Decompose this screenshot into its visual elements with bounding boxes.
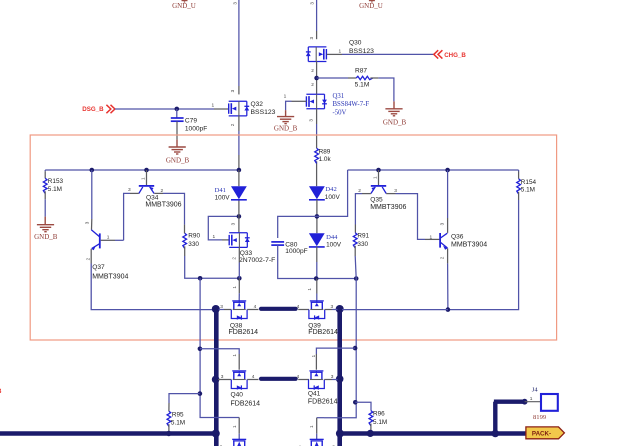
wire: Q36 emitter down to row rail — [447, 248, 449, 309]
wire: thick source link Q40-Q41 — [261, 377, 296, 381]
wire: R91 down to node — [355, 246, 356, 279]
svg-text:D41: D41 — [215, 187, 226, 194]
label D41 — [215, 187, 226, 194]
pin number 3 (Q37 base) — [85, 221, 90, 224]
wire: row3 left drain — [238, 418, 240, 440]
svg-text:4: 4 — [254, 304, 257, 310]
junction: row rail / left bus (top) — [212, 305, 220, 313]
pin number 4 (Q43) — [298, 444, 301, 446]
resistor R89 — [315, 148, 319, 163]
pin number 3 (Q30 drain) — [309, 37, 314, 40]
transistor Q33 (2N7002-7-F MOSFET, gate left) — [229, 233, 250, 248]
wire: Q41 to right bus — [324, 379, 337, 381]
wire: Q41 drain feed — [316, 348, 355, 370]
pin number 4 (Q39) — [297, 304, 300, 310]
transistor Q38 (FDB2614 power MOSFET) — [231, 301, 247, 320]
svg-text:2N7002-7-F: 2N7002-7-F — [239, 257, 275, 264]
pin number 3 (top of left drain wire) — [233, 2, 238, 5]
svg-text:Q31: Q31 — [333, 93, 345, 100]
label fragment (clipped at left edge) — [0, 388, 2, 395]
wire: Q30 gate to CHG_B port — [327, 53, 435, 55]
junction: rail / Q34 base — [144, 168, 149, 173]
pin number 1 (Q38 drain) — [232, 286, 237, 289]
pin number 1 (row3 left drain) — [232, 425, 237, 428]
wire: thick elbow to J4 — [494, 402, 525, 434]
svg-text:330: 330 — [188, 241, 199, 248]
svg-text:PACK-: PACK- — [532, 431, 551, 438]
label J4 — [532, 386, 539, 393]
svg-text:4: 4 — [297, 374, 300, 380]
svg-text:3: 3 — [309, 37, 314, 40]
svg-text:2: 2 — [230, 123, 235, 126]
svg-text:1: 1 — [232, 354, 237, 357]
wire: Q37 base from rail — [91, 170, 93, 230]
pin number 1 (Q30 gate) — [339, 49, 342, 55]
label 5.1M (R96) — [373, 419, 387, 426]
label 8199 (J4) — [533, 414, 547, 421]
pin number 1 (Q36 base) — [430, 234, 433, 240]
transistor Q40 (FDB2614 power MOSFET) — [231, 371, 247, 390]
transistor Q32 (BSS123 MOSFET, gate left) — [229, 101, 250, 116]
pin number 3 (Q39) — [331, 304, 334, 310]
pin number 1 (Q31 gate) — [284, 94, 287, 100]
wire: R95 to bottom bus — [168, 424, 170, 433]
svg-text:J4: J4 — [532, 386, 539, 393]
svg-text:1: 1 — [284, 94, 287, 100]
label 5.1M (R95) — [171, 420, 185, 427]
pin number 1 (row3 right drain) — [309, 425, 314, 428]
pin number 3 (Q32 drain) — [230, 89, 235, 92]
pin number 1 (Q32 gate) — [212, 103, 215, 109]
pin number 2 (Q35 emitter) — [358, 188, 361, 194]
pin number 4 (Q41) — [297, 374, 300, 380]
svg-text:R96: R96 — [373, 411, 385, 418]
boundary box (pink rectangle) — [30, 135, 556, 340]
junction: right column / R96 tap — [353, 400, 358, 405]
svg-text:2: 2 — [86, 257, 91, 260]
bus wire: left vertical bus (battery negative) — [214, 308, 219, 446]
capacitor C80 — [271, 242, 284, 245]
svg-text:3: 3 — [233, 2, 238, 5]
wire: R90 down and node wire to Q33/Q38 — [185, 246, 240, 278]
wire: R95 feed — [169, 394, 200, 412]
svg-text:Q35: Q35 — [370, 196, 383, 203]
wire: Q35 base pin — [378, 170, 380, 186]
pin number 3 (Q41) — [331, 374, 334, 380]
pin number 2 (Q30 source) — [311, 68, 314, 73]
wire: R87 to GND_B — [370, 78, 394, 101]
svg-text:R154: R154 — [521, 179, 537, 186]
label 100V (D42) — [325, 194, 341, 201]
label 1000pF (C80) — [285, 248, 307, 255]
pin number 4 (Q38) — [254, 304, 257, 310]
resistor R153 — [43, 178, 47, 193]
junction: DSG_B / C79 tap — [175, 107, 180, 112]
power symbol GND_U (right, clipped at top edge) — [359, 1, 383, 11]
label 5.1M (R87) — [355, 82, 370, 89]
svg-text:3: 3 — [310, 2, 315, 5]
label R95 — [172, 411, 184, 418]
label Q35 — [370, 196, 383, 203]
label BSS123 (Q30) — [349, 48, 374, 55]
junction: left bus / bottom bus — [212, 430, 220, 438]
label R153 — [48, 178, 64, 185]
label Q30 — [349, 40, 362, 47]
label MMBT3906 (Q34) — [145, 202, 181, 209]
wire: Q40 pin4 stub — [247, 379, 258, 381]
svg-text:FDB2614: FDB2614 — [308, 399, 338, 406]
wire: Q38 drain from node — [238, 278, 240, 300]
pin number 3 (Q40) — [221, 374, 224, 380]
svg-text:4: 4 — [297, 304, 300, 310]
pin number 3 (Q34 collector) — [128, 187, 131, 193]
label Q33 — [240, 250, 253, 257]
ground GND_B (below C79) — [166, 140, 190, 165]
junction: D42/D44/C80 node — [315, 214, 320, 219]
wire: rail corner down to R153 — [44, 170, 46, 178]
wire: Q34 base pin — [146, 170, 148, 186]
label MMBT3904 (Q36) — [451, 241, 487, 248]
svg-text:8199: 8199 — [533, 414, 547, 421]
transistor Q43 (FDB2614, clipped at bottom edge) — [310, 439, 324, 446]
svg-text:R87: R87 — [355, 68, 367, 75]
transistor Q37 (MMBT3904 NPN) — [91, 230, 100, 250]
svg-text:100V: 100V — [325, 194, 341, 201]
svg-text:3: 3 — [309, 119, 314, 122]
svg-text:1: 1 — [430, 234, 433, 240]
label R154 — [521, 179, 537, 186]
transistor Q42 (FDB2614, clipped at bottom edge) — [232, 439, 246, 446]
svg-text:FDB2614: FDB2614 — [229, 329, 259, 336]
wire: Q37 emitter down to row rail — [91, 249, 215, 310]
svg-text:DSG_B: DSG_B — [82, 106, 104, 113]
wire: R153 to GND_B — [44, 191, 46, 216]
svg-text:MMBT3906: MMBT3906 — [370, 204, 406, 211]
svg-text:5.1M: 5.1M — [355, 82, 370, 89]
wire: Q38 pin4 stub — [247, 309, 258, 311]
wire: D44 to Q39 node — [316, 247, 318, 279]
svg-text:1: 1 — [232, 286, 237, 289]
svg-text:1: 1 — [339, 49, 342, 55]
label BSS123 (Q32) — [251, 109, 276, 116]
wire: C80 bottom to node — [278, 245, 357, 278]
transistor Q35 (MMBT3906 PNP) — [371, 186, 386, 194]
label Q40 — [231, 391, 244, 398]
pin number 4 (Q40) — [252, 374, 255, 380]
wire: Q35 emitter to R91 — [355, 194, 371, 233]
svg-text:D44: D44 — [326, 234, 338, 241]
svg-text:GND_U: GND_U — [172, 2, 196, 10]
junction: left column / R95 tap — [198, 391, 203, 396]
label R96 — [373, 411, 385, 418]
wire: node to Q35 branch corner — [317, 170, 348, 216]
junction: right bus / Q41 gate — [336, 375, 344, 383]
svg-text:1: 1 — [309, 425, 314, 428]
svg-text:3: 3 — [128, 187, 131, 193]
wire: gate drive column (right) — [317, 279, 357, 418]
wire: Q31 source down to R89 — [316, 109, 318, 148]
wire: R96 feed — [355, 402, 371, 410]
svg-text:4: 4 — [252, 374, 255, 380]
pin number 1 (Q33 gate) — [213, 234, 216, 240]
pin number 3 (Q43) — [332, 444, 335, 446]
svg-text:100V: 100V — [326, 242, 342, 249]
pin number 1 (J4) — [530, 396, 533, 402]
svg-text:MMBT3906: MMBT3906 — [145, 202, 181, 209]
junction: elbow / bottom bus — [492, 430, 500, 438]
svg-text:3: 3 — [230, 89, 235, 92]
label MMBT3904 (Q37) — [92, 273, 128, 280]
label D42 — [325, 186, 336, 193]
svg-text:Q37: Q37 — [92, 264, 105, 271]
wire: bus to Q38 gate — [218, 309, 231, 311]
pin number 1 (Q40 drain) — [232, 354, 237, 357]
junction: rail / Q37 base — [90, 168, 95, 173]
wire: left drain vertical from top edge to Q32 — [238, 0, 240, 94]
pin number 3 (Q36 collector) — [439, 222, 444, 225]
label 100V (D41) — [215, 194, 231, 201]
svg-text:100V: 100V — [215, 194, 231, 201]
svg-text:1.0k: 1.0k — [319, 156, 332, 163]
svg-text:BSS123: BSS123 — [251, 109, 276, 116]
svg-text:5.1M: 5.1M — [373, 419, 387, 426]
wire: Q39 to right bus — [325, 309, 338, 311]
svg-text:3: 3 — [331, 304, 334, 310]
svg-text:GND_B: GND_B — [274, 125, 298, 133]
wire: row3 right drain — [316, 418, 318, 440]
ground GND_B (Q31 gate) — [274, 110, 298, 132]
label 2N7002-7-F (Q33) — [239, 257, 275, 264]
wire: Q39 pin4 stub — [298, 309, 309, 311]
ground GND_B (below R153) — [34, 217, 58, 242]
pin number 1 (Q37 collector) — [107, 235, 110, 241]
resistor R91 — [353, 233, 357, 248]
wire: D41 cathode to Q33 drain — [238, 200, 240, 233]
wire: Q36 collector to rail — [447, 170, 449, 233]
wire: right vertical from top edge to Q30 drain — [316, 0, 318, 39]
port PACK- (off-page connector) — [526, 427, 565, 439]
label FDB2614 (Q41) — [308, 399, 338, 406]
svg-text:1: 1 — [141, 177, 146, 180]
svg-text:Q40: Q40 — [231, 391, 244, 398]
svg-text:BSS123: BSS123 — [349, 48, 374, 55]
wire: Q41 pin4 stub — [298, 379, 309, 381]
label FDB2614 (Q40) — [231, 400, 261, 407]
wire: gate drive column (left) — [200, 278, 239, 417]
svg-text:1: 1 — [232, 425, 237, 428]
svg-text:330: 330 — [357, 241, 368, 248]
port DSG_B (off-page connector) — [82, 105, 115, 113]
svg-text:1: 1 — [373, 176, 378, 179]
label FDB2614 (Q38) — [229, 329, 259, 336]
junction: C80-row / Q39 drain — [314, 276, 319, 281]
label 1000pF (C79) — [185, 125, 207, 132]
svg-text:3: 3 — [231, 222, 236, 225]
wire: Q34 collector to Q37 collector — [124, 193, 139, 240]
resistor R87 — [356, 76, 373, 79]
label 5.1M (R154) — [521, 187, 535, 194]
wire: Q33 gate loop — [208, 216, 239, 240]
port CHG_B (off-page connector) — [434, 50, 467, 59]
svg-text:FDB2614: FDB2614 — [231, 400, 261, 407]
label R90 — [188, 233, 200, 240]
pin number 1 (Q35 base) — [373, 176, 378, 179]
label Q38 — [230, 323, 243, 330]
wire: C79 to GND_B — [176, 121, 178, 139]
junction: elbow / J4 pin — [522, 399, 528, 405]
resistor R95 — [167, 411, 171, 426]
wire: R89 to D42 — [316, 161, 318, 186]
svg-text:C79: C79 — [185, 118, 197, 125]
label 330 (R91) — [357, 241, 368, 248]
pin number 4 (Q42) — [255, 445, 258, 446]
wire: bus to Q40 gate — [218, 379, 231, 381]
svg-text:R95: R95 — [172, 411, 184, 418]
svg-text:Q41: Q41 — [308, 390, 321, 397]
label 5.1M (R153) — [48, 186, 62, 193]
svg-text:1000pF: 1000pF — [285, 248, 307, 255]
junction: rail / Q35 base — [376, 168, 381, 173]
capacitor C79 — [171, 118, 184, 121]
svg-text:1000pF: 1000pF — [185, 125, 207, 132]
label Q34 — [146, 194, 159, 201]
svg-text:R153: R153 — [48, 178, 64, 185]
svg-text:MMBT3904: MMBT3904 — [92, 273, 128, 280]
wire: Q39 drain from node — [316, 279, 318, 301]
pin number 2 (Q37 emitter) — [86, 257, 91, 260]
label Q37 — [92, 264, 105, 271]
transistor Q36 (MMBT3904 NPN) — [440, 233, 448, 250]
svg-text:GND_U: GND_U — [359, 2, 383, 10]
junction: node / gate-drive column — [198, 276, 203, 281]
svg-text:2: 2 — [231, 257, 236, 260]
junction: rail / D41 column — [237, 168, 242, 173]
wire: C80 top tap — [278, 216, 317, 238]
resistor R154 — [517, 179, 521, 194]
svg-text:3: 3 — [221, 374, 224, 380]
label C80 — [285, 242, 297, 249]
wire: rail dot to D41 — [238, 170, 240, 186]
svg-text:1: 1 — [213, 234, 216, 240]
resistor R90 — [183, 233, 187, 248]
pin number 3 (Q42) — [220, 444, 223, 446]
label R91 — [357, 232, 369, 239]
svg-text:Q34: Q34 — [146, 194, 159, 201]
svg-text:5.1M: 5.1M — [48, 186, 62, 193]
svg-text:1: 1 — [212, 103, 215, 109]
junction: left column / Q40 drain tap — [198, 347, 203, 352]
pin number 2 (Q36 emitter) — [439, 256, 444, 259]
svg-text:-50V: -50V — [333, 110, 347, 117]
svg-text:2: 2 — [311, 68, 314, 73]
svg-text:R91: R91 — [357, 232, 369, 239]
junction: row rail / Q36 emitter — [446, 307, 451, 312]
svg-text:5.1M: 5.1M — [171, 420, 185, 427]
label MMBT3906 (Q35) — [370, 204, 406, 211]
wire: C79 tap down — [176, 109, 178, 118]
wire: Q34 emitter to R90 — [154, 193, 184, 233]
wire: R96 to bottom bus — [370, 424, 372, 434]
wire: R154 down to row rail — [448, 192, 519, 310]
pin number 3 (Q31 source) — [309, 119, 314, 122]
transistor Q41 (FDB2614 power MOSFET) — [309, 371, 325, 390]
junction: node / Q33 source / Q38 drain — [237, 276, 242, 281]
label 1.0k (R89) — [319, 156, 332, 163]
wire: thick source link Q38-Q39 — [261, 307, 296, 311]
label 100V (D44) — [326, 242, 342, 249]
svg-text:Q32: Q32 — [251, 101, 264, 108]
wire: Q37 collector — [101, 239, 124, 241]
svg-text:1: 1 — [311, 354, 316, 357]
bus wire: bottom horizontal left segment — [0, 431, 216, 436]
wire: Q40 drain feed — [200, 349, 239, 370]
diode D41 — [231, 186, 247, 200]
pin number 3 (Q33 drain) — [231, 222, 236, 225]
pin number 1 (Q41 drain) — [311, 354, 316, 357]
label C79 — [185, 118, 197, 125]
transistor Q30 (BSS123 MOSFET, gate right) — [306, 47, 327, 62]
pin number 1 (Q34 base) — [141, 177, 146, 180]
resistor R96 — [369, 411, 373, 426]
svg-text:Q30: Q30 — [349, 40, 362, 47]
svg-text:Q36: Q36 — [451, 233, 464, 240]
pin number 3 (top of right drain wire) — [310, 2, 315, 5]
label Q39 — [308, 323, 321, 330]
svg-text:B: B — [0, 388, 2, 395]
junction: right bus / bottom bus — [336, 430, 344, 438]
svg-text:CHG_B: CHG_B — [444, 52, 466, 59]
label 330 (R90) — [188, 241, 199, 248]
pin number 2 (Q31 drain) — [311, 82, 314, 87]
junction: left bus / Q40 gate — [212, 376, 220, 384]
diode D42 — [309, 186, 325, 200]
pin number 2 (Q34 emitter) — [161, 188, 164, 194]
diode D44 — [309, 233, 325, 247]
svg-text:GND_B: GND_B — [34, 233, 58, 241]
label R89 — [319, 148, 331, 155]
wire: D42 to D44 with taps — [316, 200, 318, 234]
junction: R95 / bottom bus — [166, 431, 171, 436]
svg-text:R89: R89 — [319, 148, 331, 155]
transistor Q31 (BSS84W-7-F P-MOSFET, gate left) — [306, 94, 327, 109]
label Q41 — [308, 390, 321, 397]
wire: left rail (node to Q34/Q37/R153/D41) — [45, 169, 239, 171]
junction: rail / Q36 collector — [445, 168, 450, 173]
svg-text:MMBT3904: MMBT3904 — [451, 241, 487, 248]
junction: C80-row / R91 column — [354, 276, 359, 281]
wire: Q35 collector to Q36 base — [386, 194, 439, 240]
wire: row rail right bus to Q36/R154 — [342, 309, 448, 311]
wire: right rail (Q35/Q36/R154) — [348, 169, 519, 171]
junction: Q30/Q31/R87 node — [314, 76, 319, 81]
junction: right column / Q41 drain tap — [353, 346, 358, 351]
wire: Q32 source down to rail — [238, 116, 240, 170]
svg-text:BSS84W-7-F: BSS84W-7-F — [333, 101, 370, 108]
pin number 2 (Q33 source) — [231, 257, 236, 260]
svg-text:3: 3 — [220, 304, 223, 310]
label BSS84W-7-F (Q31) — [333, 101, 370, 108]
svg-text:1: 1 — [307, 288, 312, 291]
svg-text:3: 3 — [331, 374, 334, 380]
bus wire: bottom horizontal right segment — [340, 431, 526, 436]
svg-text:R90: R90 — [188, 233, 200, 240]
label R87 — [355, 68, 367, 75]
wire: J4 pin 1 — [525, 401, 541, 403]
pin number 3 (Q35 collector) — [394, 188, 397, 194]
label FDB2614 (Q39) — [308, 329, 338, 336]
wire: rail corner to R154 — [518, 170, 520, 179]
pin number 1 (Q39 drain) — [307, 288, 312, 291]
